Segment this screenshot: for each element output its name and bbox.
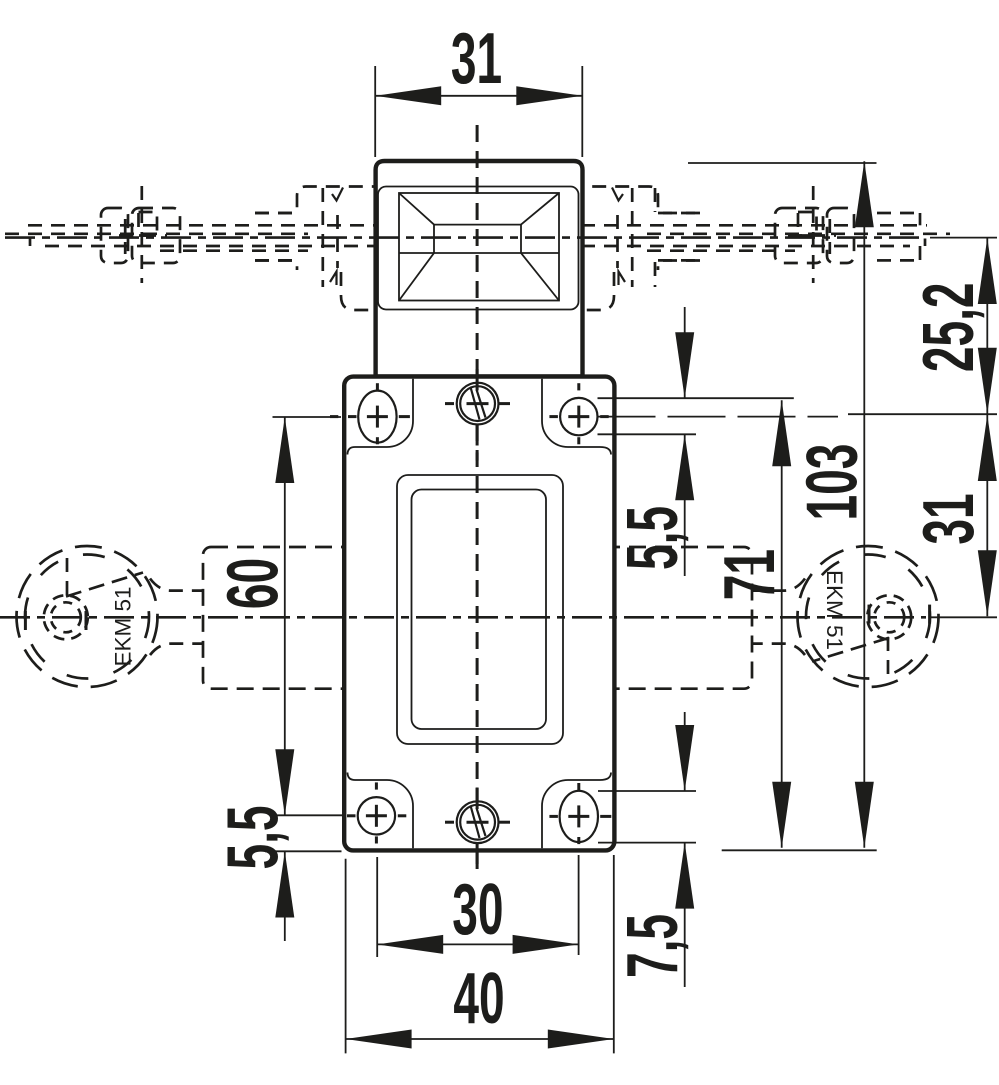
head actuator slot opening [399,193,559,301]
svg-text:31: 31 [907,493,988,544]
dimension 25,2 (head axis to hole axis) [907,238,996,414]
mounting hole bottom-right (slot 5.5x7.5) [560,791,598,842]
EKM 51 key right: dashed ring [798,546,939,687]
dimension 30 (bottom hole spacing) [377,855,578,957]
actuator cross section left (key loop edge-on) [101,186,180,283]
hole cross bottom-right [549,783,611,844]
svg-text:31: 31 [451,17,502,98]
dimension 7,5 (bottom-right slot length) [598,712,696,987]
hole cross top-left [330,383,410,444]
EKM key right: hub tick marks [928,605,931,624]
svg-text:EKM 51: EKM 51 [822,570,847,650]
EKM key right: neck to mounting frame [752,579,805,656]
actuator dashed row lines right of head [581,213,950,260]
cover screw top [457,383,499,425]
dimension 31 (head width, top) [375,17,582,157]
svg-text:60: 60 [212,558,293,609]
corner pocket top-right [542,379,611,455]
svg-text:103: 103 [791,444,872,521]
chamfer marks right [612,188,623,201]
svg-text:25,2: 25,2 [907,282,988,372]
dimension 60 (hole spacing, left) [212,417,342,815]
svg-text:5,5: 5,5 [212,805,293,869]
mounting hole bottom-left (round 5.5) [358,797,395,834]
cover frame outer [397,475,563,744]
svg-text:5,5: 5,5 [611,506,692,570]
slot funnel bottom edge [399,252,559,254]
EKM key left: dashed mounting frame [203,547,360,689]
dimension 5,5 (bottom-left hole to bottom edge) [212,805,342,941]
switch body outline [344,377,614,851]
switch head outline [376,161,583,377]
cover frame inner [412,490,547,730]
svg-text:71: 71 [708,549,789,600]
chamfer marks left [332,188,343,201]
dimension 40 (body width, bottom) [346,855,614,1053]
EKM key left: hub tick marks [24,611,27,630]
svg-text:40: 40 [453,957,504,1038]
hole cross bottom-left [347,782,406,843]
actuator dashed row lines left of head [5,213,374,260]
mounting hole top-right (round 5.5) [560,398,597,435]
slot funnel inner rectangle [434,225,521,253]
mounting hole top-left (slot 5.5x7.5) [358,391,396,443]
dimension 103 [688,161,877,850]
center line: horizontal body axis [0,616,926,619]
corner pocket bottom-right [542,773,611,849]
screw cross bottom [445,788,510,865]
extension line hole axis right [598,416,839,418]
cover screw bottom [457,801,499,843]
dimension 31 (hole axis to body axis, right) [907,415,996,616]
EKM 51 key left: dashed ring [17,546,158,687]
EKM key right: dashed mounting frame [595,547,752,689]
EKM key left: neck to mounting frame [150,579,203,656]
actuator entry envelope left of head [255,187,377,311]
actuator entry envelope right of head [578,187,700,311]
dimension 5,5 (top-right hole diameter) [598,307,794,576]
svg-text:30: 30 [452,868,503,949]
hole cross top-right [549,383,608,444]
corner pocket bottom-left [348,773,414,849]
EKM 51 key left: hub circles [44,558,143,639]
corner pocket top-left [348,379,414,455]
dimension 71 [708,400,791,848]
center line: vertical body axis [476,125,479,383]
center line: horizontal head axis [5,236,926,239]
svg-text:7,5: 7,5 [611,914,692,978]
slot funnel diagonals [399,193,559,301]
svg-text:EKM 51: EKM 51 [111,586,136,666]
EKM 51 key right: hub circles [812,595,911,676]
actuator cross section right (key loop edge-on) [775,186,854,283]
screw cross top [445,369,510,461]
head face plate [378,187,579,310]
